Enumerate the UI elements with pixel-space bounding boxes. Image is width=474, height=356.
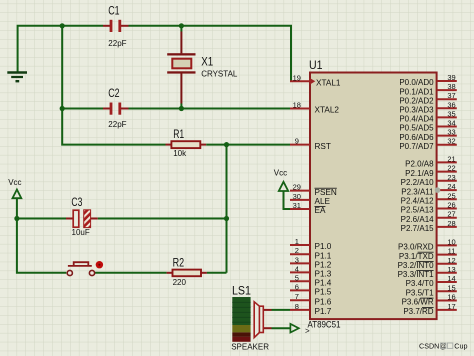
svg-text:29: 29 — [293, 183, 301, 192]
svg-text:39: 39 — [447, 73, 455, 82]
label Vcc (at EA) — [274, 169, 287, 178]
svg-text:33: 33 — [447, 128, 455, 137]
pin 24 P2.3/A11 — [401, 182, 457, 196]
svg-text:P1.4: P1.4 — [315, 279, 332, 288]
pin 35 P0.4/AD4 — [399, 109, 456, 123]
svg-text:P3.4/T0: P3.4/T0 — [406, 279, 435, 288]
wire: crystal top lead — [180, 26, 182, 54]
pin 12 P3.2/INT0 — [398, 256, 457, 270]
junction dot RST node / reset branch — [224, 142, 229, 147]
svg-text:8: 8 — [295, 302, 299, 311]
svg-text:ALE: ALE — [315, 197, 331, 206]
pin 9 RST — [290, 137, 331, 151]
svg-text:AT89C51: AT89C51 — [308, 320, 341, 330]
pin 32 P0.7/AD7 — [399, 137, 456, 151]
pin 2 P1.1 — [290, 246, 332, 260]
speaker LS1 horn and driver — [254, 302, 263, 338]
pin 28 P2.7/A15 — [401, 219, 457, 233]
pin 15 P3.5/T1 — [406, 283, 457, 297]
pin 8 P1.7 — [290, 302, 332, 316]
push button — [67, 261, 103, 276]
svg-text:31: 31 — [293, 201, 301, 210]
svg-text:10uF: 10uF — [72, 228, 90, 237]
label C2 — [108, 88, 119, 100]
svg-text:4: 4 — [295, 264, 299, 273]
pin 6 P1.5 — [290, 282, 332, 296]
svg-text:3: 3 — [295, 255, 299, 264]
pin 1 P1.0 — [290, 237, 332, 251]
wire: Vcc terminal to EA pin 31 — [284, 191, 291, 209]
ground — [7, 73, 27, 82]
svg-text:P3.1/TXD: P3.1/TXD — [399, 252, 434, 261]
value 22pF (C1) — [108, 39, 126, 48]
pin 23 P2.2/A10 — [401, 173, 457, 187]
junction dot at crystal bottom — [179, 106, 184, 111]
svg-text:1: 1 — [295, 237, 299, 246]
pin 13 P3.3/INT1 — [398, 265, 457, 279]
pin 4 P1.3 — [290, 264, 332, 278]
wire: C3 row left segment — [17, 218, 73, 220]
capacitor C1 — [110, 20, 122, 32]
svg-text:27: 27 — [447, 210, 455, 219]
svg-text:P0.1/AD1: P0.1/AD1 — [399, 87, 434, 96]
label AT89C51 — [305, 320, 341, 336]
crystal X1 — [167, 53, 195, 73]
junction dot at C2 row / ground branch — [60, 106, 65, 111]
svg-text:35: 35 — [447, 109, 455, 118]
wire: speaker top to P1.7 pin — [263, 309, 290, 311]
svg-text:10: 10 — [447, 237, 455, 246]
pin 37 P0.2/AD2 — [399, 91, 456, 105]
svg-text:25: 25 — [447, 191, 455, 200]
svg-text:P2.3/A11: P2.3/A11 — [401, 187, 434, 196]
pin 34 P0.5/AD5 — [399, 119, 456, 133]
svg-text:38: 38 — [447, 82, 455, 91]
power terminal Vcc (at EA) — [279, 182, 288, 191]
pin 18 XTAL2 — [290, 101, 339, 115]
svg-text:5: 5 — [295, 273, 299, 282]
svg-text:12: 12 — [447, 256, 455, 265]
svg-text:220: 220 — [173, 278, 187, 287]
pin 21 P2.0/A8 — [405, 154, 457, 168]
pin 17 P3.7/RD — [403, 302, 456, 316]
svg-text:22: 22 — [447, 164, 455, 173]
wire: crystal bottom lead — [180, 73, 182, 108]
svg-text:RST: RST — [315, 142, 331, 151]
svg-text:CRYSTAL: CRYSTAL — [201, 69, 238, 78]
svg-text:34: 34 — [447, 119, 455, 128]
wire: button right to R2 — [94, 272, 173, 274]
svg-text:P3.5/T1: P3.5/T1 — [406, 289, 435, 298]
pin 26 P2.5/A13 — [401, 201, 457, 215]
pin 25 P2.4/A12 — [401, 191, 457, 205]
wire: speaker bottom to output terminal — [263, 327, 290, 329]
svg-text:24: 24 — [447, 182, 455, 191]
svg-text:7: 7 — [295, 292, 299, 301]
svg-text:P1.6: P1.6 — [315, 297, 332, 306]
svg-text:X1: X1 — [201, 56, 213, 68]
svg-text:9: 9 — [295, 137, 299, 146]
speaker LS1 body — [232, 297, 250, 342]
svg-text:P2.7/A15: P2.7/A15 — [401, 224, 434, 233]
wire: C3 right to reset branch — [91, 218, 227, 220]
wire: ground to C1 left (net XTAL1) — [18, 26, 111, 72]
svg-text:14: 14 — [447, 274, 455, 283]
svg-text:37: 37 — [447, 91, 455, 100]
svg-text:XTAL1: XTAL1 — [316, 79, 341, 88]
label LS1 — [232, 285, 251, 297]
pin 16 P3.6/WR — [402, 293, 457, 307]
op chip U1 AT89C51 body — [310, 73, 437, 320]
svg-text:P3.0/RXD: P3.0/RXD — [398, 243, 434, 252]
svg-text:C2: C2 — [108, 88, 119, 100]
pin 27 P2.6/A14 — [401, 210, 457, 224]
svg-text:P0.4/AD4: P0.4/AD4 — [399, 115, 434, 124]
svg-text:P0.2/AD2: P0.2/AD2 — [399, 96, 434, 105]
svg-text:P3.2/INT0: P3.2/INT0 — [398, 261, 435, 270]
svg-text:Vcc: Vcc — [274, 169, 287, 178]
pin 10 P3.0/RXD — [398, 237, 457, 251]
pin 39 P0.0/AD0 — [399, 73, 456, 87]
svg-text:P1.5: P1.5 — [315, 288, 332, 297]
svg-text:P0.0/AD0: P0.0/AD0 — [399, 78, 434, 87]
label C1 — [108, 5, 119, 17]
pin 3 P1.2 — [290, 255, 332, 269]
svg-text:U1: U1 — [309, 60, 323, 72]
junction dot Vcc / C3 row — [14, 216, 19, 221]
svg-text:2: 2 — [295, 246, 299, 255]
svg-text:17: 17 — [447, 302, 455, 311]
svg-text:30: 30 — [293, 192, 301, 201]
svg-text:16: 16 — [447, 293, 455, 302]
value CRYSTAL — [201, 69, 238, 78]
svg-text:P0.5/AD5: P0.5/AD5 — [399, 124, 434, 133]
svg-text:22pF: 22pF — [108, 120, 126, 129]
svg-text:P1.0: P1.0 — [315, 242, 332, 251]
wire: R1 right to RST pin — [200, 144, 290, 146]
wire: R2 right to reset branch — [201, 272, 227, 274]
svg-text:32: 32 — [447, 137, 455, 146]
svg-text:P0.7/AD7: P0.7/AD7 — [399, 142, 434, 151]
svg-text:C3: C3 — [71, 197, 82, 209]
junction dot at crystal top — [179, 23, 184, 28]
svg-text:P3.7/RD: P3.7/RD — [403, 307, 433, 316]
svg-text:P1.3: P1.3 — [315, 270, 332, 279]
label R2 — [173, 258, 185, 270]
svg-text:P2.1/A9: P2.1/A9 — [405, 169, 434, 178]
svg-text:15: 15 — [447, 283, 455, 292]
svg-text:6: 6 — [295, 282, 299, 291]
pin 7 P1.6 — [290, 292, 332, 306]
svg-text:P2.5/A13: P2.5/A13 — [401, 206, 434, 215]
wire: vertical ground branch x=62 down to R1 row — [62, 26, 171, 145]
pin 29 PSEN — [290, 183, 337, 197]
pin 14 P3.4/T0 — [406, 274, 457, 288]
power terminal Vcc (left) — [13, 190, 22, 199]
resistor R2 — [173, 270, 202, 277]
svg-text:P3.3/INT1: P3.3/INT1 — [398, 270, 435, 279]
svg-text:C1: C1 — [108, 5, 119, 17]
svg-text:P1.7: P1.7 — [315, 307, 332, 316]
svg-text:EA: EA — [315, 206, 326, 215]
svg-text:11: 11 — [448, 247, 456, 256]
svg-text:R1: R1 — [173, 129, 184, 141]
wire: C1 right to XTAL1 pin — [121, 26, 291, 82]
svg-text:XTAL2: XTAL2 — [315, 106, 340, 115]
junction dot reset branch / C3 row — [224, 216, 229, 221]
wire: vertical reset branch x=226.5 — [226, 145, 228, 273]
svg-text:21: 21 — [447, 154, 455, 163]
output terminal arrow (speaker return) — [290, 324, 298, 333]
wire: C2 row left segment — [62, 108, 110, 110]
svg-text:PSEN: PSEN — [315, 188, 337, 197]
pin 31 EA — [290, 201, 326, 215]
watermark — [419, 342, 467, 351]
pin 33 P0.6/AD6 — [399, 128, 456, 142]
pin 11 P3.1/TXD — [399, 247, 457, 261]
capacitor C2 — [110, 103, 122, 115]
resistor R1 — [171, 141, 200, 148]
svg-text:R2: R2 — [173, 258, 185, 270]
svg-text:>: > — [305, 327, 310, 336]
svg-text:P2.4/A12: P2.4/A12 — [401, 197, 434, 206]
svg-text:22pF: 22pF — [108, 39, 126, 48]
svg-text:P2.0/A8: P2.0/A8 — [405, 160, 434, 169]
junction dot at C1 wire / ground branch — [60, 23, 65, 28]
svg-text:28: 28 — [447, 219, 455, 228]
svg-text:P0.3/AD3: P0.3/AD3 — [399, 106, 434, 115]
svg-text:26: 26 — [447, 201, 455, 210]
svg-text:P1.2: P1.2 — [315, 261, 332, 270]
svg-text:Vcc: Vcc — [8, 178, 21, 187]
capacitor C3 (polarized) — [73, 210, 90, 228]
wire: Vcc stem down left side — [17, 198, 66, 272]
svg-text:LS1: LS1 — [232, 285, 251, 297]
label X1 — [201, 56, 213, 68]
svg-text:P3.6/WR: P3.6/WR — [402, 298, 434, 307]
svg-text:19: 19 — [293, 73, 301, 82]
pin 22 P2.1/A9 — [405, 164, 457, 178]
value SPEAKER — [231, 343, 269, 352]
pin 38 P0.1/AD1 — [399, 82, 456, 96]
svg-text:23: 23 — [447, 173, 455, 182]
svg-text:P0.6/AD6: P0.6/AD6 — [399, 133, 434, 142]
svg-text:SPEAKER: SPEAKER — [231, 343, 269, 352]
label C3 — [71, 197, 82, 209]
value 22pF (C2) — [108, 120, 126, 129]
value 10k — [173, 149, 187, 158]
label Vcc (left) — [8, 178, 21, 187]
pin 30 ALE — [290, 192, 331, 206]
svg-text:Cup: Cup — [454, 342, 467, 351]
wire: C2 right to XTAL2 pin — [121, 108, 290, 110]
pin 36 P0.3/AD3 — [399, 100, 456, 114]
svg-text:36: 36 — [447, 100, 455, 109]
pin 19 XTAL1 — [290, 73, 341, 87]
svg-text:P2.2/A10: P2.2/A10 — [401, 178, 434, 187]
label R1 — [173, 129, 184, 141]
value 220 — [173, 278, 187, 287]
svg-text:P2.6/A14: P2.6/A14 — [401, 215, 434, 224]
svg-text:P1.1: P1.1 — [315, 251, 332, 260]
svg-text:18: 18 — [293, 101, 301, 110]
svg-text:10k: 10k — [173, 149, 187, 158]
value 10uF — [72, 228, 90, 237]
svg-text:13: 13 — [447, 265, 455, 274]
pin 5 P1.4 — [290, 273, 332, 287]
label U1 — [309, 60, 323, 72]
